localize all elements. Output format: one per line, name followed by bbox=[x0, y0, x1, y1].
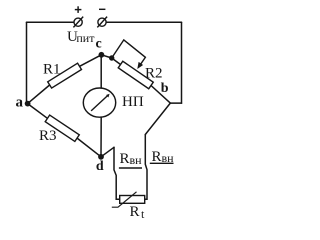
wire node b diagonal bbox=[145, 103, 170, 134]
thermistor strike bbox=[112, 192, 137, 207]
wire R2 lead lower bbox=[151, 86, 170, 104]
thermistor Rt body bbox=[120, 196, 145, 204]
wire top-right horizontal bbox=[106, 21, 181, 23]
wire b branch vertical with jog bbox=[145, 135, 147, 200]
label minus bbox=[99, 8, 105, 10]
wire R1 lead upper bbox=[80, 55, 102, 67]
wire meter to node d bbox=[100, 117, 102, 156]
svg-text:Uпит: Uпит bbox=[67, 29, 95, 45]
node c junction dot2 bbox=[109, 55, 114, 60]
meter arrowhead bbox=[106, 94, 110, 98]
terminal positive bbox=[74, 18, 82, 26]
wire left vertical to node a bbox=[26, 22, 28, 103]
wire R2 lead upper bbox=[112, 58, 121, 65]
wire R3 lead upper bbox=[28, 104, 48, 119]
svg-text:НП: НП bbox=[122, 94, 144, 110]
wire right vertical to node b bbox=[181, 22, 183, 103]
node c bbox=[99, 52, 105, 58]
wire node c to meter bbox=[100, 55, 102, 88]
resistor R3 body bbox=[45, 115, 79, 141]
svg-text:Rвн: Rвн bbox=[120, 151, 143, 167]
wiper of R2 bbox=[112, 40, 146, 66]
svg-text:R3: R3 bbox=[39, 128, 57, 144]
resistor R1 body bbox=[48, 63, 82, 88]
svg-text:R1: R1 bbox=[43, 61, 61, 77]
wiper arrowhead bbox=[137, 62, 143, 69]
wire node c to R2 junction bbox=[101, 55, 111, 58]
terminal negative bbox=[98, 18, 106, 26]
wire R1 lead lower bbox=[28, 85, 50, 104]
null indicator meter circle bbox=[83, 88, 115, 117]
label plus bbox=[75, 6, 82, 13]
svg-text:b: b bbox=[161, 81, 169, 96]
node d bbox=[98, 154, 104, 160]
svg-text:R2: R2 bbox=[145, 66, 163, 82]
svg-text:d: d bbox=[96, 159, 104, 174]
svg-text:Rt: Rt bbox=[130, 204, 146, 221]
wire stub node b bbox=[170, 102, 181, 104]
node a bbox=[25, 101, 31, 107]
svg-text:c: c bbox=[96, 36, 102, 51]
wire d branch vertical with jog bbox=[114, 147, 120, 199]
wire R3 lead lower bbox=[77, 138, 101, 157]
wire node d diagonal bbox=[101, 147, 114, 157]
meter arrow bbox=[91, 96, 108, 111]
wire top-left horizontal bbox=[27, 21, 74, 23]
resistor R2 body bbox=[118, 61, 153, 89]
svg-text:a: a bbox=[16, 94, 24, 110]
